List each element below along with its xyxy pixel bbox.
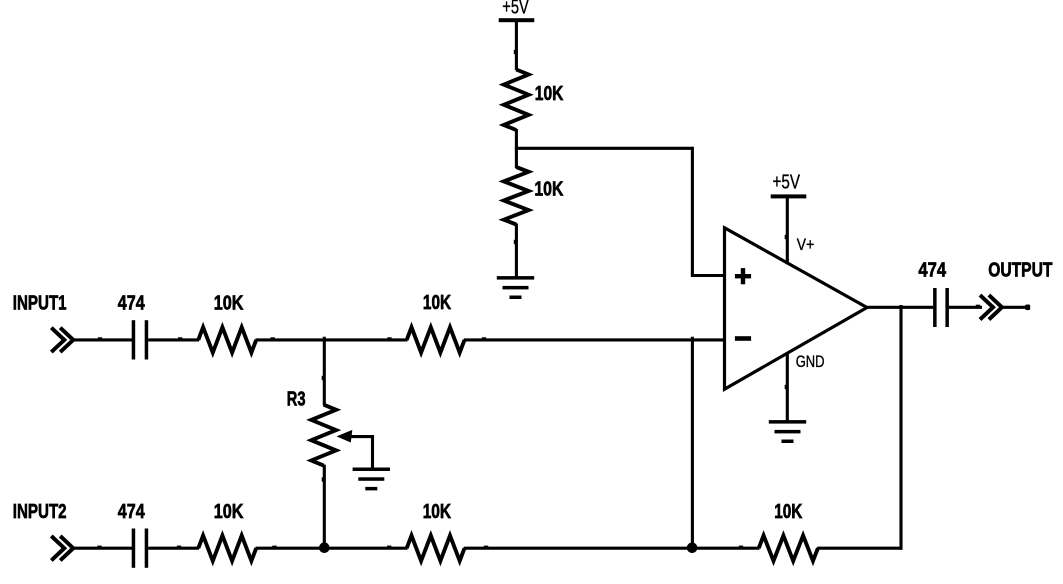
op-amp U1 triangle [725,228,868,389]
svg-text:474: 474 [118,292,145,315]
wire R7 to feedback resistor [464,547,760,550]
wire wiper to ground [349,437,373,469]
svg-text:+5V: +5V [502,0,529,19]
wire down to noninverting input [691,147,694,276]
connector OUTPUT chevrons [980,295,993,319]
junction dot R3/INPUT2 [319,542,330,553]
svg-text:10K: 10K [214,500,244,523]
resistor R6 10K (input2 series) [198,536,256,561]
wire joint nubs (vertical wires) [514,50,517,54]
svg-text:INPUT1: INPUT1 [13,291,67,314]
svg-text:10K: 10K [423,291,451,314]
wire +5V bar to R1 [515,20,518,70]
connector INPUT2 chevrons [51,536,64,560]
wire INPUT1 node down to R3 [323,337,326,406]
resistor R2 10K (divider bottom) [504,167,529,225]
svg-text:INPUT2: INPUT2 [13,500,67,523]
power bar +5V (divider) [499,18,535,22]
wire after output connector [1002,306,1030,309]
svg-text:+5V: +5V [773,171,801,193]
wire joint nubs (horizontal wires) [98,337,102,340]
ground (op-amp) [769,420,806,424]
resistor R1 10K (divider top) [504,70,529,131]
svg-text:10K: 10K [774,500,802,523]
wire op-amp to ground [786,352,789,421]
wire inverting net down to INPUT2 line [691,337,694,549]
svg-text:474: 474 [918,259,946,282]
output wire end terminal [1025,305,1030,311]
resistor R4 10K (input1 series) [198,327,256,352]
op-amp + input marker [735,274,751,278]
svg-text:10K: 10K [534,177,563,200]
junction dot inverting net [687,543,698,554]
svg-text:V+: V+ [797,236,814,254]
wire INPUT2 connector to C2 [73,547,133,550]
potentiometer R3 body [311,405,336,466]
potentiometer R3 wiper arrow [337,430,353,443]
connector INPUT1 chevrons [51,328,64,352]
resistor R7 10K (input2 to inverting node) [407,536,465,561]
svg-text:GND: GND [796,353,825,371]
wire into op-amp + input [691,274,725,277]
svg-text:10K: 10K [535,82,564,105]
svg-text:474: 474 [118,500,145,523]
svg-text:10K: 10K [423,500,452,523]
capacitor C2 474 (input2) [132,529,136,568]
wire R8 to feedback riser [817,547,902,550]
wire C3 to output connector [949,306,982,309]
op-amp - input marker [735,336,751,341]
wire C2 to R6 [148,547,199,550]
resistor R5 10K (input1 to inverting node) [407,327,465,352]
svg-text:R3: R3 [287,388,306,411]
svg-text:10K: 10K [214,292,244,315]
wire R5 to op-amp - input [464,338,725,341]
wire divider node to right [515,147,693,150]
wire R1 to R2 through node [515,129,518,168]
power bar +5V (op-amp) [771,194,807,198]
wire R3 to INPUT2 line [323,465,326,549]
svg-text:OUTPUT: OUTPUT [988,258,1053,281]
wire R2 to ground [515,224,518,278]
wire R6 to R7 [256,547,408,550]
wire INPUT1 connector to C1 [73,338,133,341]
capacitor C1 474 (input1) [132,320,136,359]
wire V+ supply to op-amp [786,196,789,264]
ground (divider) [497,276,534,280]
wire C1 to R4 [148,338,199,341]
capacitor C3 474 (output) [933,288,937,327]
wire R4 to summing resistor [256,338,408,341]
ground (wiper) [353,468,390,472]
wire op-amp output to C3 [866,306,934,309]
wire feedback riser to output [899,305,902,550]
resistor R8 10K (feedback) [759,536,818,561]
